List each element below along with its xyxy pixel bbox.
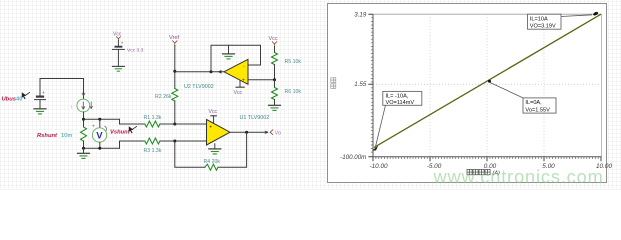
op-amp U2 TLV9002 (mirrored, points left): [218, 59, 249, 84]
svg-text:VO=114mV: VO=114mV: [386, 100, 415, 106]
wire U1 output: [230, 131, 268, 133]
node output junction: [245, 131, 248, 134]
supply pin Vcc of U1: [209, 109, 218, 124]
resistor R6 10k: [272, 80, 278, 105]
svg-text:Vcc: Vcc: [209, 109, 218, 115]
marker trace mid dot: [488, 80, 491, 83]
port Vo: [265, 130, 281, 137]
y-axis minor ticks: [371, 18, 373, 152]
resistor R3 1.3k: [145, 138, 160, 144]
marker trace end arrow: [593, 11, 599, 16]
svg-text:Vo=1.55V: Vo=1.55V: [525, 107, 550, 113]
ground under Ubus battery: [34, 109, 46, 114]
ground at bottom rail: [78, 148, 90, 158]
x-axis title glyphs (CJK imitation) + (A): [467, 169, 490, 174]
wire Vref down: [174, 46, 176, 89]
wire current source to top junction: [83, 112, 85, 119]
port Vcc (3.3 battery): [113, 31, 122, 40]
svg-text:-100.00m: -100.00m: [340, 154, 366, 161]
x-axis: [373, 156, 602, 158]
supply pin Vcc of U2: [234, 81, 245, 96]
callout box IL=0A: [490, 83, 556, 114]
callout box IL=10A: [528, 14, 593, 29]
svg-text:Vref: Vref: [169, 35, 180, 41]
svg-text:www.cntronics.com: www.cntronics.com: [433, 167, 604, 187]
svg-text:V: V: [96, 131, 103, 142]
svg-text:Vcc 3.3: Vcc 3.3: [127, 47, 144, 53]
svg-text:Vcc: Vcc: [269, 36, 278, 42]
y-axis major ticks: [368, 14, 373, 157]
wire Vref node to U2 output: [175, 71, 224, 73]
op-amp U1 TLV9002: [207, 120, 231, 146]
wire step to R3 row: [120, 141, 145, 148]
svg-text:U2 TLV9002: U2 TLV9002: [184, 84, 214, 90]
ground under R6: [269, 105, 281, 110]
svg-text:R5 10k: R5 10k: [285, 59, 302, 65]
svg-text:R2 26k: R2 26k: [155, 94, 172, 100]
svg-text:R6 10k: R6 10k: [285, 89, 302, 95]
resistor R4 20k: [205, 164, 218, 170]
svg-text:10m: 10m: [61, 133, 72, 139]
svg-text:R4 20k: R4 20k: [204, 159, 221, 165]
wire Ubus top lead: [39, 79, 41, 96]
current source IL (circle with arrow): [71, 93, 92, 112]
x-axis major ticks: [373, 157, 601, 162]
wire R1 to node: [160, 123, 207, 125]
gridline vertical dotted: [430, 14, 544, 157]
svg-text:40: 40: [16, 97, 22, 103]
svg-text:Rshunt: Rshunt: [37, 133, 58, 139]
svg-text:1.55: 1.55: [354, 81, 367, 88]
svg-text:+: +: [92, 125, 95, 130]
svg-text:+: +: [209, 124, 212, 130]
mouse cursor glyph near Vshunt label: [129, 126, 137, 133]
wire top rail from Ubus to current source: [40, 79, 84, 99]
svg-text:Vcc: Vcc: [234, 90, 243, 96]
svg-text:Vo: Vo: [275, 131, 281, 137]
port Vcc (R5 top): [269, 36, 278, 47]
marker trace start arrow: [372, 146, 378, 151]
svg-text:VO=3.19V: VO=3.19V: [530, 23, 556, 29]
chart panel background: [328, 4, 607, 183]
voltmeter Vshunt: [92, 119, 107, 148]
ground on U2 loop: [223, 45, 235, 59]
node R5/R6 junction: [273, 78, 276, 81]
svg-text:Ubus: Ubus: [2, 97, 17, 103]
svg-text:+: +: [42, 91, 45, 96]
wire R3 to node: [160, 140, 207, 142]
ground under Vcc 3.3: [112, 66, 124, 71]
node U2 output junction: [210, 70, 213, 73]
svg-text:-10.00: -10.00: [369, 163, 388, 170]
battery V1 Ubus: [35, 91, 46, 109]
svg-text:R3 1.3k: R3 1.3k: [144, 148, 162, 154]
label Ubus 40: [2, 97, 23, 103]
resistor Rshunt (vertical): [81, 119, 87, 148]
battery Vcc 3.3: [112, 41, 143, 67]
mouse cursor glyph near Ubus label: [22, 92, 30, 99]
x-axis labels: [369, 163, 612, 170]
label Rshunt 10m: [37, 133, 72, 139]
wire U2 +input to R5/R6 divider: [249, 79, 275, 81]
resistor R2 26k: [172, 89, 178, 102]
svg-text:Vshunt: Vshunt: [110, 129, 131, 135]
x-axis minor ticks: [376, 157, 598, 159]
svg-text:+: +: [242, 78, 245, 84]
node top junction rail: [84, 118, 120, 120]
plot border top: [373, 13, 602, 15]
node Vref junction: [173, 70, 176, 73]
resistor R5 10k: [272, 47, 278, 80]
svg-text:IL=10A: IL=10A: [530, 17, 548, 23]
y-axis labels: [340, 11, 367, 161]
resistor R1 1.3k: [145, 121, 160, 127]
y-axis: [372, 14, 374, 157]
svg-text:3.19: 3.19: [354, 11, 367, 18]
svg-text:+: +: [121, 41, 124, 46]
plot border right: [601, 14, 603, 157]
wire R4 feedback: [218, 132, 247, 167]
wire R2 to R1 node: [174, 101, 176, 124]
wire bottom rail: [84, 147, 120, 149]
wire feedback loop U2: [211, 45, 261, 72]
y-axis title glyphs (CJK imitation): [331, 78, 336, 89]
svg-text:IL= -10A,: IL= -10A,: [386, 94, 409, 100]
callout box IL=-10A: [375, 91, 422, 149]
ground under U1: [209, 144, 221, 154]
trace VO vs IL: [374, 14, 601, 147]
gridline horizontal dotted: [373, 83, 602, 85]
port Vref: [169, 35, 180, 46]
wire R4 to inverting node: [175, 141, 205, 167]
svg-text:IL=0A,: IL=0A,: [525, 100, 542, 106]
svg-text:R1 1.3k: R1 1.3k: [144, 115, 162, 121]
svg-text:I: I: [71, 104, 72, 109]
svg-text:U1 TLV9002: U1 TLV9002: [240, 115, 270, 121]
wire step to R1 row: [120, 119, 145, 124]
